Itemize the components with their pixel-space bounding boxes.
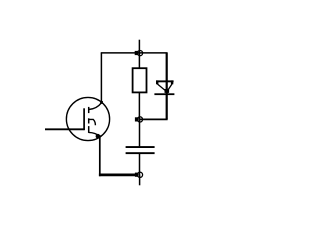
node top junction circle — [137, 51, 142, 56]
wire capacitor top lead — [139, 119, 141, 146]
wire resistor top lead — [138, 53, 140, 68]
node mid junction dot — [135, 117, 139, 121]
wire bottom rail — [99, 174, 137, 177]
wire drain riser — [100, 53, 102, 102]
capacitor C1 bottom plate — [126, 152, 155, 154]
diode apex blob — [165, 89, 170, 93]
mosfet channel segment drain — [88, 107, 90, 113]
mosfet source link — [89, 132, 100, 136]
node bottom junction dot — [135, 173, 139, 177]
mosfet gate bar — [83, 108, 85, 130]
diode D1 — [154, 80, 174, 95]
wire source drop — [99, 135, 101, 176]
wire capacitor bottom lead — [139, 154, 141, 175]
mosfet envelope circle — [66, 97, 109, 140]
capacitor C1 top plate — [126, 146, 155, 148]
mosfet drain link — [89, 103, 102, 110]
mosfet source junction dot — [96, 134, 101, 139]
wire gate lead — [45, 128, 85, 130]
mosfet channel segment bulk — [88, 118, 90, 123]
mosfet channel segment source — [88, 126, 90, 133]
wire resistor bottom lead — [138, 92, 140, 119]
diode right corner tick — [171, 80, 173, 84]
node top junction dot — [135, 51, 139, 55]
wire bottom terminal stub — [139, 175, 141, 186]
mosfet bulk stub and hook — [89, 119, 96, 125]
diode left corner tick — [156, 80, 158, 84]
resistor R1 — [133, 68, 147, 92]
wire top rail — [101, 52, 168, 54]
node mid junction circle — [137, 117, 142, 122]
wire mid horizontal (diode to node) — [140, 118, 168, 120]
wire diode branch vertical — [166, 53, 168, 120]
diode left side — [157, 84, 166, 91]
diode anode top bar — [156, 80, 174, 82]
node bottom junction circle — [137, 172, 142, 177]
mosfet drain terminal blob — [100, 101, 103, 104]
diode cathode bar — [154, 93, 174, 95]
transistor Q1 (MOSFET, enhancement) — [66, 97, 109, 140]
diode right side — [167, 84, 172, 91]
wire top terminal stub — [138, 40, 140, 53]
